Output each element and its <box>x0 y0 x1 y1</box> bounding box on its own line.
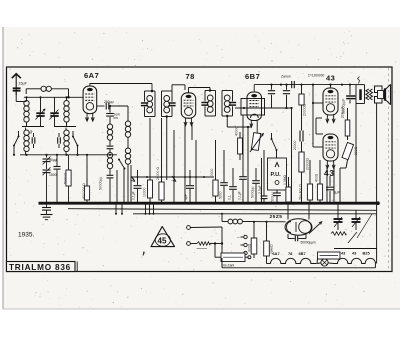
svg-text:1935.: 1935. <box>18 232 34 239</box>
output transformer windings <box>366 89 373 100</box>
resistor R4 20000ohm <box>156 118 164 203</box>
padding capacitor C6 <box>43 167 51 203</box>
power transformer box <box>334 249 377 264</box>
oscillator left column <box>106 105 120 124</box>
wire drop x117 <box>116 170 118 203</box>
tuning capacitor CV1 <box>36 97 46 126</box>
cathode resistor arrow mark a1 <box>131 176 135 181</box>
RF coil L1 <box>24 97 29 126</box>
wave-band coil L4 <box>64 128 69 155</box>
filter resistor R11 <box>307 160 312 203</box>
svg-text:43: 43 <box>326 74 335 83</box>
svg-text:43: 43 <box>324 168 334 178</box>
svg-text:Σ=1200000: Σ=1200000 <box>308 73 324 77</box>
switch S4 <box>271 138 278 151</box>
filter capacitor C18 8uF <box>326 176 341 203</box>
trimmer C t2 <box>58 133 61 148</box>
svg-text:15µF: 15µF <box>19 81 28 85</box>
svg-text:6A7: 6A7 <box>273 251 280 256</box>
capacitor 250pF <box>104 100 128 110</box>
svg-text:400 000 Ω: 400 000 Ω <box>82 183 86 199</box>
oscillator coil L6a <box>125 121 130 137</box>
rectifier filter capacitor C20 <box>352 210 361 230</box>
wire drop x131 <box>130 165 132 203</box>
svg-text:∼: ∼ <box>237 235 240 240</box>
wire speaker field drop <box>376 104 380 249</box>
wire earth lead to dropper <box>214 242 221 257</box>
wire 6A7 plate line to IF1 <box>90 84 154 93</box>
heater return line <box>222 258 375 268</box>
line-cord resistor R14 <box>264 221 274 261</box>
IF transformer 1 primary loop <box>141 90 155 117</box>
node stubs between buses <box>115 203 155 215</box>
wire bias distribution line <box>131 176 214 178</box>
ballast resistor box <box>318 252 341 259</box>
svg-text:50000µµm: 50000µµm <box>301 241 317 245</box>
svg-text:B25: B25 <box>363 251 371 256</box>
capacitor C12 <box>251 168 260 203</box>
svg-text:500µµ: 500µµ <box>271 192 275 202</box>
speaker squiggle <box>358 77 360 84</box>
heater filament chain left <box>267 258 317 263</box>
svg-text:20000: 20000 <box>293 140 297 150</box>
capacitor C11 <box>228 168 237 203</box>
svg-text:0,1µF: 0,1µF <box>132 191 136 200</box>
wire IF1 secondary to 78 top cap <box>172 85 185 91</box>
svg-text:6B7: 6B7 <box>299 251 306 256</box>
wire S4 leads <box>272 133 277 158</box>
svg-text:5000: 5000 <box>219 191 223 199</box>
resistor R9 <box>345 108 350 140</box>
right margin dashed line <box>388 68 390 271</box>
svg-text:0,1: 0,1 <box>228 195 232 200</box>
aerial terminal <box>187 226 222 230</box>
svg-text:0,1µF: 0,1µF <box>238 191 242 200</box>
svg-text:50000µµ: 50000µµ <box>99 177 103 190</box>
mains terminals <box>237 235 248 255</box>
grid capacitor C16 <box>292 81 295 88</box>
junction dots on ground bus <box>45 202 357 205</box>
wire osc right drop <box>127 164 129 203</box>
wire switch S2 leads <box>73 131 79 156</box>
svg-text:78: 78 <box>186 72 195 81</box>
IF transformer 2 primary loop <box>201 89 215 116</box>
IF transformer 2 secondary loop <box>222 91 236 118</box>
oscillator coil link <box>127 137 129 148</box>
heater labels 43 43 B25 <box>341 251 370 256</box>
RF coil L2 <box>64 97 69 126</box>
output transformer primary capacitor <box>342 85 356 114</box>
trimmer C t1 <box>29 130 35 148</box>
heater labels 6A7 78 6B7 <box>273 251 306 256</box>
stray mark <box>143 252 145 256</box>
wire drop x174 <box>173 130 175 203</box>
svg-text:cm: cm <box>114 116 119 120</box>
wire 43 interstage <box>316 118 323 134</box>
title box TRIALMO 836 <box>7 262 78 272</box>
svg-text:25Z5: 25Z5 <box>270 214 283 220</box>
wire AVC horizontal line <box>20 154 117 156</box>
wire heater line <box>133 213 376 215</box>
loudspeaker <box>375 84 391 104</box>
capacitor C10 <box>219 150 228 203</box>
oscillator coil L5b <box>107 153 112 169</box>
svg-text:0,5MΩ: 0,5MΩ <box>283 174 287 185</box>
wire terminal link down <box>221 227 223 258</box>
wire drop x261 <box>261 158 263 203</box>
antenna series capacitor <box>13 88 21 90</box>
IF transformer 2 primary coil <box>207 95 213 112</box>
svg-text:50µµ: 50µµ <box>49 158 57 162</box>
svg-text:250µµ: 250µµ <box>104 100 114 104</box>
wire antenna down-lead <box>16 91 26 102</box>
resistor R8 <box>299 142 310 204</box>
6B7 legs <box>250 120 257 133</box>
hum resistor zigzag <box>331 232 346 236</box>
svg-text:45: 45 <box>158 237 167 246</box>
wave-band coil L3 <box>24 128 29 155</box>
6B7 diode box <box>241 99 265 116</box>
hum coil <box>221 213 248 224</box>
triangle warning 45 <box>151 227 175 247</box>
wire 78 cathode drops <box>185 125 192 203</box>
wire 6B7 diode line right <box>235 107 293 109</box>
ground symbol <box>41 215 53 220</box>
wire drop x124 <box>123 168 125 203</box>
tuning capacitor CV2 <box>50 97 59 126</box>
oscillator right column <box>127 106 129 121</box>
svg-text:20000Ω: 20000Ω <box>306 158 310 170</box>
resistor R1 5000ohm <box>64 155 72 203</box>
filter resistor R12 <box>315 160 323 203</box>
capacitor C9 under 6B7 <box>238 160 247 203</box>
oscillator switch S3 <box>118 159 126 170</box>
output transformer <box>356 85 365 104</box>
wire hum coil to rectifier <box>248 221 286 223</box>
bias resistor R10 slanted <box>340 142 358 203</box>
capacitor C14b <box>283 84 290 110</box>
buffer capacitor under 25Z5 <box>288 234 316 245</box>
wire IF2 secondary to 6B7 grid <box>227 116 251 127</box>
svg-text:P.U.: P.U. <box>271 172 282 178</box>
IF amplifier tube 78 <box>181 93 195 126</box>
svg-text:Dis-Zark: Dis-Zark <box>222 264 235 268</box>
capacitor below PU <box>271 190 281 203</box>
oscillator coil L6b <box>125 148 130 164</box>
svg-text:6A7: 6A7 <box>84 71 99 80</box>
svg-text:300Ω: 300Ω <box>248 243 252 252</box>
output tube 43 lower <box>323 134 338 169</box>
wire 25Z5 top drops <box>287 202 311 220</box>
svg-text:10000: 10000 <box>143 187 147 197</box>
wire IF1 secondary bottom drop <box>166 117 168 181</box>
pick-up box P.U. <box>268 158 287 190</box>
tuned circuit 2 bottom wire <box>54 126 76 128</box>
wire switch S1 leads <box>13 131 19 156</box>
rectifier filter capacitor C19 <box>334 203 343 230</box>
oscillator coil L5a <box>107 124 112 140</box>
IF transformer 2 secondary coil <box>224 95 230 112</box>
wire transformer secondary drop <box>355 104 357 204</box>
wire coil to grid node <box>67 89 70 99</box>
AVC line junction dots <box>25 154 111 156</box>
capacitor C14 <box>268 84 275 109</box>
wire 43 lower grid <box>313 146 323 148</box>
IF transformer 1 secondary loop <box>162 91 176 118</box>
pentagrid tube 6A7 <box>83 86 97 121</box>
volume control potentiometer <box>250 133 264 152</box>
oscillator left column lower cap <box>99 169 114 204</box>
antenna coupling coil <box>26 86 68 91</box>
resistor R5 <box>210 140 218 203</box>
wire 43 upper top stub <box>330 85 332 88</box>
wire R2 top lead <box>86 154 88 186</box>
IF transformer 1 secondary coil <box>164 96 170 113</box>
resistor R6 40000ohm <box>235 126 243 160</box>
duo-diode pentode 6B7 <box>247 92 262 121</box>
capacitor left of PU <box>258 150 268 203</box>
line-cord resistor R13 <box>248 221 257 258</box>
resistor R2 0.5Mohm <box>82 178 90 203</box>
earth terminal with resistor <box>187 242 224 249</box>
resistor R3 <box>143 118 153 203</box>
svg-text:400Ω: 400Ω <box>315 173 319 182</box>
svg-text:20000Ω: 20000Ω <box>303 104 307 116</box>
band switch S2 <box>72 136 79 147</box>
arrow mark a2 <box>172 176 176 181</box>
pilot lamp <box>317 259 334 266</box>
wire grid line <box>24 96 83 98</box>
svg-text:5000µµ: 5000µµ <box>251 187 255 198</box>
heater filament chain right <box>334 258 375 263</box>
svg-text:10000: 10000 <box>210 168 214 178</box>
IF transformer 1 primary coil <box>147 96 153 113</box>
wire 6A7 grid4 to right <box>97 105 105 107</box>
wire 6B7 top cap to output line <box>254 84 356 93</box>
terminal right of dropper <box>245 256 251 259</box>
svg-text:20000 Ω: 20000 Ω <box>156 167 160 180</box>
wire 78 plate up <box>189 88 211 93</box>
wire 43 upper grid <box>313 102 323 104</box>
resistor R15 <box>283 174 291 203</box>
svg-text:8µF: 8µF <box>334 191 341 195</box>
schematic border frame <box>7 67 393 272</box>
capacitor C7 0.1uF <box>132 170 142 203</box>
svg-text:4µ: 4µ <box>29 130 33 134</box>
tuned circuit 1 bottom wire <box>22 126 44 128</box>
wire 6B7 left leads down <box>243 115 249 203</box>
capacitor C8 <box>184 170 194 203</box>
svg-text:Zanon: Zanon <box>281 75 291 79</box>
capacitor C21 series pair <box>293 131 303 151</box>
svg-text:50000µµF: 50000µµF <box>342 99 346 114</box>
svg-text:5000 Ω: 5000 Ω <box>64 173 68 184</box>
wire x57 drop <box>54 155 61 203</box>
trimmer capacitor C5 with arrow <box>43 155 51 169</box>
resistor R7 20000ohm <box>299 85 307 131</box>
svg-text:Tko 400 Ω: Tko 400 Ω <box>299 184 303 200</box>
wire coupling coil left down <box>25 89 27 94</box>
rectifier arrow <box>309 222 322 234</box>
svg-text:1500: 1500 <box>49 173 57 177</box>
wire 43 lower legs to bus <box>151 77 391 268</box>
ground bypass capacitor <box>42 203 51 214</box>
rectifier tube 25Z5 <box>285 219 312 235</box>
chassis diagonal leads <box>348 214 372 243</box>
voltage dropper box Dis-Zark <box>221 253 245 268</box>
wire chain to ballast <box>316 259 319 264</box>
svg-text:TRIALMO 836: TRIALMO 836 <box>9 263 71 272</box>
svg-text:6B7: 6B7 <box>245 72 260 81</box>
band switch S1 <box>13 136 20 147</box>
wire driver grid vertical <box>312 85 314 147</box>
wire B-minus line <box>68 209 376 211</box>
wire drop x196 <box>195 140 197 203</box>
oscillator feedback cap <box>107 140 114 152</box>
wire x291 down <box>291 108 293 203</box>
ground bus (thick) <box>39 202 379 205</box>
svg-text:40000: 40000 <box>235 126 239 136</box>
output tube 43 upper <box>323 88 338 123</box>
antenna <box>12 74 21 95</box>
